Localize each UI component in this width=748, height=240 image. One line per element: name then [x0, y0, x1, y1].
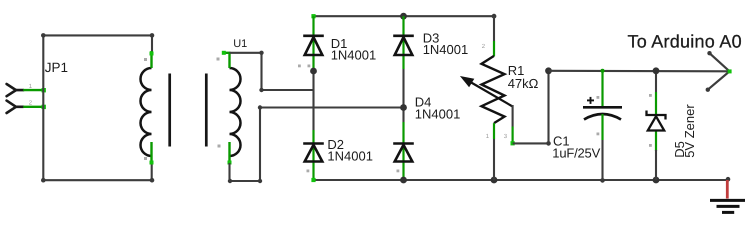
wire bottom bus — [314, 179, 729, 181]
node top bus / D3 junction — [400, 13, 407, 20]
capacitor C1 top plate — [583, 106, 622, 109]
potentiometer R1 zigzag — [482, 56, 505, 123]
diode D2 — [303, 144, 324, 162]
core bar left — [168, 74, 171, 147]
zener D5 column wires — [655, 71, 657, 92]
connector JP1 pin 1 chevron — [7, 84, 24, 96]
capacitor C1 bottom plate (arc) — [584, 114, 621, 120]
svg-text:JP1: JP1 — [45, 60, 68, 75]
bendpoint at R1 drop — [492, 14, 497, 19]
diode D3 — [393, 36, 414, 55]
svg-text:1N4001: 1N4001 — [327, 149, 373, 164]
arrow to Arduino — [708, 53, 730, 89]
primary bottom pin (green) — [150, 142, 152, 164]
svg-text:To Arduino A0: To Arduino A0 — [628, 32, 742, 52]
svg-text:1uF/25V: 1uF/25V — [552, 146, 600, 161]
tiny pin marks D5 — [649, 94, 652, 147]
bus end dot — [726, 177, 731, 182]
wire secondary bottom to bridge — [230, 108, 404, 182]
wiper wire riser — [547, 71, 549, 144]
transformer U1 primary coil — [141, 68, 152, 156]
svg-text:1N4001: 1N4001 — [415, 106, 461, 121]
JP1 pin 2 endpoint — [42, 105, 46, 109]
svg-text:5V Zener: 5V Zener — [682, 104, 697, 158]
wire left loop rectangle — [43, 35, 152, 180]
ground bar 1 — [710, 199, 745, 202]
svg-text:47kΩ: 47kΩ — [508, 76, 539, 91]
capacitor C1 bottom pin — [601, 114, 603, 140]
connector JP1 pin 2 chevron — [7, 101, 24, 113]
JP1 pin 1 endpoint — [42, 88, 46, 92]
diode D1 — [303, 36, 324, 55]
wire end marker at arrow tip — [728, 69, 732, 73]
tiny pin marks C1 — [597, 96, 600, 135]
bendpoint dots of loop — [41, 33, 154, 182]
tiny pin marks D1/D2 — [298, 65, 310, 173]
node D4 bottom — [400, 177, 407, 184]
capacitor C1 top pin — [601, 71, 603, 106]
tiny pin mark D4 — [397, 170, 400, 173]
bendpoint dots — [228, 179, 232, 183]
primary pin endpoints — [150, 52, 154, 56]
green corner at D2 bottom — [311, 178, 315, 182]
wire top bus — [314, 15, 495, 17]
svg-text:1N4001: 1N4001 — [423, 42, 469, 57]
potentiometer wiper arrow — [466, 80, 513, 107]
node D5 bottom — [653, 177, 660, 184]
transformer U1 secondary coil — [230, 68, 241, 156]
ground bar 2 — [717, 205, 740, 208]
secondary pin endpoints — [224, 52, 231, 54]
ground stub (red) — [726, 180, 729, 199]
secondary bottom pin (green) — [228, 142, 230, 164]
diode D4 — [393, 144, 414, 162]
wiper wire down — [512, 105, 514, 127]
D3 column wires — [402, 16, 404, 69]
zener diode D5 — [647, 111, 666, 131]
green corner at D1 top — [311, 14, 315, 18]
ground bar 3 — [722, 211, 734, 214]
primary top pin (green) — [150, 51, 152, 68]
node R1 bottom — [491, 177, 498, 184]
node output bus left — [545, 67, 552, 74]
wire secondary top to bridge — [230, 53, 314, 90]
node D3-D4 junction — [400, 104, 407, 111]
R1 top wire — [493, 16, 495, 41]
node D5 top — [653, 67, 660, 74]
wiper wire horizontal — [513, 142, 549, 144]
svg-text:1N4001: 1N4001 — [331, 48, 377, 63]
R1 top pin green — [493, 41, 495, 56]
capacitor C1 plus sign — [587, 97, 594, 104]
JP1 pin 1 green wire — [23, 89, 44, 91]
svg-text:U1: U1 — [233, 38, 247, 50]
node D1-D2 junction — [310, 68, 317, 75]
JP1 pin 2 green wire — [23, 106, 44, 108]
wire output bus — [549, 70, 730, 73]
D1 column wires — [312, 16, 314, 71]
node C1 bottom — [600, 178, 605, 183]
tiny coil pin marks — [144, 58, 221, 161]
R1 bottom pin green — [493, 123, 495, 139]
core bar right — [205, 74, 208, 147]
R1 bottom wire — [493, 139, 495, 180]
bendpoint dots — [259, 51, 263, 55]
secondary top pin (green) — [228, 53, 230, 68]
